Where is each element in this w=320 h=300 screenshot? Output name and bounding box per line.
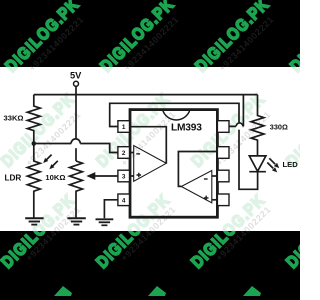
watermark phone number diagonal rows: [27, 14, 86, 73]
svg-text:330Ω: 330Ω: [270, 123, 288, 132]
resistor 33K: [27, 95, 40, 144]
minus sign U1A: [136, 153, 140, 155]
LDR light arrow lines: [46, 155, 58, 167]
wire pin2 stub: [130, 152, 134, 154]
LED cathode bar: [249, 171, 266, 173]
top black band: [0, 0, 300, 67]
minus sign U1B: [204, 178, 208, 180]
translucent white panel over circuit area: [0, 67, 300, 231]
watermark corner tip 1: [54, 286, 72, 296]
pin 1 box: [118, 121, 130, 133]
wire pin1 output to LED cathode: [110, 103, 258, 189]
watermark DIGILOG.PK diagonal rows: [1, 0, 83, 76]
svg-text:LM393: LM393: [171, 122, 202, 133]
LDR resistor body: [27, 144, 40, 218]
svg-text:10KΩ: 10KΩ: [45, 173, 65, 182]
svg-text:LED: LED: [283, 160, 299, 169]
plus sign U1A: [137, 173, 142, 178]
LED arrowhead 1: [274, 163, 279, 168]
wire pin4 to ground: [104, 200, 118, 219]
pot wiper arrowhead: [86, 172, 95, 180]
wire hop arc over output wire: [236, 123, 243, 126]
pin 7 box: [217, 147, 229, 159]
svg-text:33KΩ: 33KΩ: [4, 114, 24, 123]
plus sign U1B: [204, 196, 209, 201]
wire hop arc over 5V line: [71, 139, 80, 144]
svg-text:4: 4: [122, 198, 126, 205]
pin 2 box: [118, 147, 130, 159]
wire pin8 to 5V with hop: [229, 95, 243, 127]
LED arrowhead 2: [272, 167, 277, 172]
watermark corner tip 3: [243, 286, 261, 296]
bottom black band: [0, 231, 300, 300]
LDR arrowhead 2: [49, 164, 54, 169]
pin 4 box: [118, 194, 130, 206]
IC U1 body LM393: [130, 110, 217, 218]
op-amp U1B triangle: [181, 171, 212, 203]
svg-text:LDR: LDR: [5, 173, 22, 182]
LED emission arrow lines: [267, 158, 275, 168]
resistor 330 branch from 5V: [251, 95, 264, 156]
potentiometer 10K body: [70, 161, 83, 218]
svg-text:1: 1: [122, 124, 126, 131]
LED triangle: [249, 156, 266, 171]
watermark corner tip 2: [148, 286, 166, 296]
svg-text:5V: 5V: [70, 70, 82, 80]
ground G3 bars: [96, 218, 114, 220]
wire pin7 internal to U1B output: [178, 152, 217, 187]
svg-text:3: 3: [122, 174, 126, 181]
LDR arrowhead 1: [43, 158, 48, 163]
ground G2 bars: [67, 217, 85, 219]
wire hop mask at pin8 crossing: [236, 123, 243, 130]
node A junction dot: [32, 141, 37, 146]
svg-text:2: 2: [122, 150, 126, 157]
IC notch: [163, 110, 191, 120]
ground G1 bars: [25, 217, 43, 219]
5V terminal circle: [74, 81, 79, 86]
wire 5V top rail: [34, 94, 258, 96]
wire pin6 stub: [212, 175, 218, 177]
wire node A to pin2 with hop: [34, 144, 118, 153]
wire 5V drop to pot: [75, 86, 77, 161]
pin 3 box: [118, 170, 130, 182]
wire pin3 stub: [130, 175, 134, 177]
pin 6 box: [217, 170, 229, 182]
wire pin1 internal to U1A output: [130, 127, 167, 164]
pin 8 box: [217, 121, 229, 133]
wire hop mask at 5V line crossing: [71, 139, 80, 148]
op-amp U1A triangle: [134, 146, 167, 182]
wire pot wiper to pin3: [95, 175, 118, 177]
wire pin5 stub: [212, 199, 218, 201]
pin 5 box: [217, 194, 229, 206]
